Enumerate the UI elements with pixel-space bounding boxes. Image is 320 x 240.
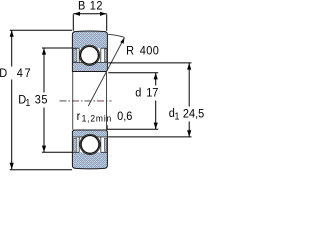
svg-text:1: 1: [25, 98, 30, 109]
svg-text:D: D: [0, 66, 7, 80]
svg-text:24,5: 24,5: [183, 107, 204, 121]
svg-text:0,6: 0,6: [117, 109, 132, 123]
svg-text:1,2min: 1,2min: [82, 113, 113, 124]
svg-text:d: d: [135, 86, 141, 100]
svg-text:B: B: [78, 0, 86, 13]
svg-text:12: 12: [90, 0, 103, 13]
svg-text:r: r: [77, 109, 81, 123]
svg-text:400: 400: [140, 44, 159, 58]
svg-text:35: 35: [35, 93, 48, 107]
svg-text:R: R: [126, 44, 134, 58]
svg-text:1: 1: [175, 111, 180, 122]
svg-text:47: 47: [17, 66, 32, 80]
svg-text:17: 17: [146, 86, 158, 100]
